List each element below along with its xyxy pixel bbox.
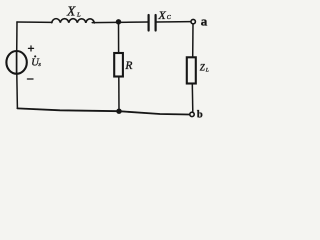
wire R branch lower (R box to bottom junction) bbox=[118, 77, 120, 111]
left wire lower (source down to bottom corner) bbox=[16, 74, 19, 109]
minus sign of source bbox=[27, 78, 33, 80]
svg-text:b: b bbox=[197, 110, 203, 120]
wire node a down to ZL bbox=[192, 24, 194, 57]
capacitor XC left plate bbox=[148, 15, 150, 31]
svg-text:X: X bbox=[66, 4, 76, 19]
svg-text:L: L bbox=[76, 11, 81, 18]
voltage source internal arrow line bbox=[16, 51, 18, 74]
resistor R box bbox=[114, 53, 123, 77]
wire capacitor to node a bbox=[157, 21, 191, 23]
svg-text:L: L bbox=[205, 68, 209, 74]
left wire upper (corner down to source) bbox=[16, 22, 18, 52]
junction node dot bottom bbox=[116, 109, 121, 114]
svg-text:X: X bbox=[157, 8, 166, 22]
wire top-left horizontal (corner to inductor) bbox=[17, 21, 52, 23]
wire R branch upper (top junction to R box) bbox=[118, 22, 120, 53]
wire ZL down to node b bbox=[191, 84, 194, 113]
junction node dot top (R branch tap) bbox=[116, 19, 121, 24]
capacitor XC right plate bbox=[155, 15, 157, 31]
plus sign of source bbox=[28, 46, 33, 51]
inductor XL coil bbox=[52, 19, 95, 23]
terminal node a (open circle) bbox=[191, 19, 195, 23]
wire top-middle (inductor to capacitor) bbox=[92, 21, 147, 24]
svg-text:a: a bbox=[201, 13, 208, 28]
svg-text:R: R bbox=[124, 60, 132, 72]
impedance ZL box bbox=[187, 57, 196, 83]
voltage source Us circle bbox=[6, 51, 26, 74]
terminal node b (open circle) bbox=[190, 112, 194, 116]
bottom wire (node b to bottom-left corner) bbox=[17, 108, 189, 114]
